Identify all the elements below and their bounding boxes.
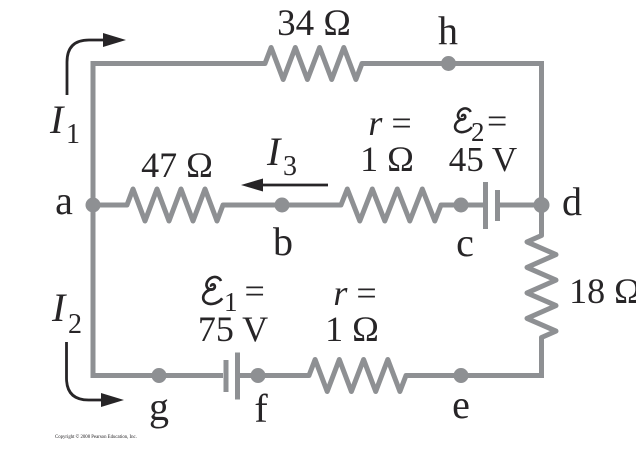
svg-text:47 Ω: 47 Ω — [141, 145, 213, 185]
arrowhead I3 — [241, 179, 263, 192]
node a — [86, 198, 101, 213]
svg-text:e: e — [452, 382, 470, 427]
wire: right vertical lower — [539, 338, 544, 379]
battery E2 long plate — [483, 182, 488, 229]
resistor R 47ohm — [120, 189, 230, 221]
arrowhead I2 — [101, 393, 124, 407]
wire: left vertical (a branch) — [91, 61, 96, 378]
svg-text:1 Ω: 1 Ω — [360, 139, 414, 179]
resistor R 34ohm — [258, 48, 369, 80]
arrow I2 curved — [67, 342, 103, 400]
emf symbol E2 script — [455, 108, 472, 132]
resistor r 1ohm bottom — [302, 360, 413, 392]
node c — [454, 198, 469, 213]
emf symbol E1 script — [203, 277, 222, 304]
wire: right vertical upper — [539, 61, 544, 236]
wire: top right segment — [362, 61, 544, 66]
battery E2 short plate — [495, 190, 500, 221]
svg-text:45 V: 45 V — [449, 140, 517, 179]
arrow I3 line — [258, 184, 328, 187]
arrowhead I1 — [103, 33, 126, 47]
svg-text:r =: r = — [368, 103, 411, 143]
resistor R 18ohm — [527, 228, 556, 345]
wire: bottom g-to-battery segment — [91, 373, 224, 378]
svg-text:a: a — [55, 178, 73, 223]
wire: middle b segment — [223, 203, 341, 208]
svg-text:d: d — [562, 179, 582, 224]
arrow I1 curved — [67, 40, 105, 95]
svg-text:I: I — [266, 129, 282, 174]
svg-text:r =: r = — [333, 273, 376, 313]
wire: middle c-to-battery2 — [441, 203, 483, 208]
node b — [275, 198, 290, 213]
svg-text:I: I — [49, 97, 65, 142]
node d — [534, 197, 550, 213]
svg-text:c: c — [456, 220, 474, 265]
svg-text:1 Ω: 1 Ω — [325, 309, 379, 349]
node e — [454, 368, 469, 383]
resistor r 1ohm middle — [334, 189, 448, 221]
svg-text:=: = — [487, 101, 507, 141]
node g — [152, 368, 167, 383]
node h — [441, 56, 456, 71]
svg-text:b: b — [273, 219, 293, 264]
svg-text:Copyright © 2008 Pearson Educa: Copyright © 2008 Pearson Education, Inc. — [55, 434, 137, 440]
battery E1 short plate — [224, 360, 229, 392]
wire: bottom right segment — [406, 373, 544, 378]
svg-text:=: = — [245, 271, 265, 311]
svg-text:2: 2 — [68, 309, 82, 340]
svg-text:f: f — [254, 386, 268, 431]
node f — [251, 368, 266, 383]
battery E1 long plate — [235, 353, 240, 400]
svg-text:3: 3 — [283, 151, 297, 182]
svg-text:75 V: 75 V — [198, 309, 268, 349]
wire: battery2-to-d — [500, 203, 542, 208]
wire: top left segment — [91, 61, 266, 66]
wire: battery1-to-f-to-resistor segment — [240, 373, 309, 378]
svg-text:18 Ω: 18 Ω — [569, 271, 636, 311]
svg-text:34 Ω: 34 Ω — [277, 3, 351, 44]
svg-text:g: g — [149, 384, 169, 429]
svg-text:I: I — [51, 285, 67, 330]
svg-text:1: 1 — [66, 119, 80, 150]
svg-text:h: h — [438, 8, 458, 53]
wire: middle a-to-47ohm — [93, 203, 127, 208]
